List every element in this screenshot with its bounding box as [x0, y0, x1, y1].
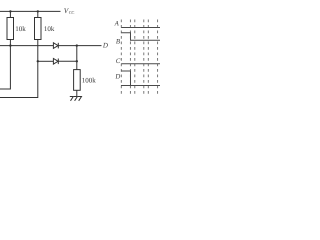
wire input line B — [38, 60, 54, 62]
svg-text:A: A — [114, 21, 120, 28]
dashed time line t4 — [143, 20, 145, 95]
wire R2 bottom lead down to left exit — [0, 40, 38, 98]
svg-text:10k: 10k — [44, 25, 55, 33]
dashed time line t5 — [147, 20, 149, 95]
waveform C — [121, 63, 160, 65]
node output dot — [76, 44, 78, 46]
dashed time line t2 — [129, 20, 131, 95]
svg-text:100k: 100k — [82, 77, 97, 85]
svg-text:CC: CC — [69, 10, 75, 15]
resistor R2 — [37, 11, 39, 17]
svg-text:B: B — [116, 39, 120, 46]
svg-text:D: D — [114, 73, 120, 80]
waveform B — [121, 33, 160, 41]
resistor R3 100k — [74, 70, 81, 91]
node A junction — [9, 44, 11, 46]
wire A branch down to left exit — [0, 46, 10, 89]
wire Vcc rail — [0, 10, 61, 12]
wire output to D — [77, 45, 102, 47]
waveform A — [121, 27, 160, 29]
wire input line A — [0, 45, 53, 47]
node dot D2 line — [76, 60, 78, 62]
diode D1 — [53, 43, 58, 49]
dashed time line t6 — [157, 20, 159, 95]
svg-text:D: D — [102, 41, 108, 49]
wire common cathode vertical — [76, 46, 78, 70]
waveform D high — [121, 71, 131, 86]
diode D2 — [53, 59, 58, 65]
ground — [70, 97, 82, 101]
dashed time line t3 — [134, 20, 136, 95]
resistor R1 — [9, 11, 11, 17]
wire D1 cathode to node — [58, 45, 77, 47]
node dot R1 top — [9, 10, 11, 12]
node dot R2 top — [37, 10, 39, 12]
svg-text:10k: 10k — [15, 25, 26, 33]
svg-text:C: C — [116, 58, 121, 65]
node B junction — [37, 60, 39, 62]
wire D2 cathode to node — [58, 60, 77, 62]
dashed time line t1 — [120, 20, 122, 95]
waveform D baseline — [121, 85, 160, 87]
